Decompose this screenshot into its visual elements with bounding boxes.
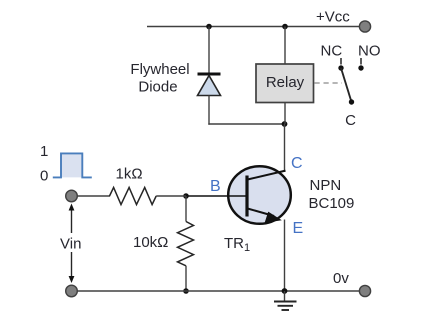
resistor R2 10k zigzag [178,222,194,266]
resistor R1 1k zigzag [110,187,157,204]
svg-text:E: E [293,220,304,237]
C contact dot [349,99,354,104]
svg-text:1: 1 [40,143,48,160]
node junction on 0v rail at emitter [282,288,288,294]
svg-text:TR1: TR1 [224,235,250,254]
wire 0v bottom rail [72,290,361,292]
svg-text:B: B [210,178,221,195]
svg-text:Diode: Diode [138,78,177,95]
node junction on rail above relay [282,24,288,30]
node junction below relay [282,121,288,127]
transistor TR1 base bar [245,176,248,217]
terminal Vin bottom [66,285,78,297]
wire relay bottom [284,103,286,125]
ground symbol [274,301,297,303]
Vin arrow line lower segment [71,252,73,278]
svg-text:C: C [291,155,303,172]
wire 10k bottom [185,266,187,291]
NO contact stub [360,58,362,65]
diode D1 triangle [198,76,221,96]
wire base node down to 10k [185,196,187,222]
transistor TR1 body circle [228,166,291,224]
transistor TR1 emitter stroke with arrow [248,209,275,217]
svg-text:10kΩ: 10kΩ [133,234,168,251]
svg-text:+Vcc: +Vcc [316,9,350,26]
Vin arrow line upper segment [71,208,73,233]
svg-text:NPN: NPN [310,177,342,194]
NC contact stub [340,58,342,65]
svg-text:1kΩ: 1kΩ [116,165,143,182]
wire relay top [284,27,286,65]
svg-text:Flywheel: Flywheel [130,61,189,78]
node junction on rail above diode [206,24,212,30]
svg-text:NO: NO [358,43,381,60]
wire R1 to base node [156,195,186,197]
wire emitter [284,220,286,292]
wire diode anode drop [208,27,210,75]
svg-text:Vin: Vin [60,236,81,253]
wire collector [284,124,286,172]
node junction at base divider [183,193,189,199]
svg-text:Relay: Relay [266,74,305,91]
wire base lead [186,195,246,197]
wire diode to collector node [208,123,284,125]
svg-text:BC109: BC109 [309,195,355,212]
terminal 0v [359,285,370,296]
pulse waveform trace [53,153,92,177]
switch arm NC to C [341,68,352,102]
wire diode cathode drop [208,96,210,125]
NO contact dot [358,65,363,70]
wire input to R1 [77,195,110,197]
node junction on 0v rail below 10k [183,288,189,294]
transistor TR1 collector stroke [248,171,286,180]
ground stub [284,291,286,302]
svg-text:0: 0 [40,167,48,184]
NC contact dot [338,65,343,70]
relay K1 coil box [256,64,314,103]
svg-text:NC: NC [321,43,343,60]
svg-text:0v: 0v [333,270,349,287]
dashed mechanical link relay to switch [315,82,343,84]
wire +Vcc top rail [147,26,360,28]
svg-text:C: C [345,112,356,129]
diode D1 cathode bar [198,73,221,76]
terminal +Vcc [359,21,370,32]
terminal Vin top [66,190,78,202]
pulse waveform fill [61,153,82,177]
